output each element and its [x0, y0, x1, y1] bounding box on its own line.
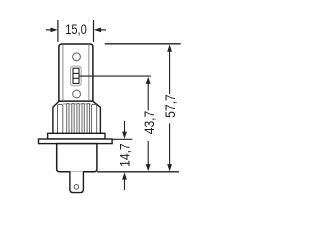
svg-text:14,7: 14,7	[116, 143, 132, 167]
dimension 15,0 left arrow	[46, 29, 52, 31]
bottom reference line (base seating plane)	[97, 171, 179, 173]
dimension 14,7 top extension line	[113, 138, 133, 140]
connector tab	[70, 172, 84, 193]
connector tab hole	[74, 185, 79, 190]
spring rib 2	[72, 103, 74, 133]
dimension 43,7 down arrow	[146, 164, 151, 171]
flange lower plate	[39, 139, 113, 144]
top screw circle	[73, 53, 81, 61]
body inner right edge line	[88, 44, 90, 100]
base housing	[57, 144, 97, 172]
dimension 43,7 up arrow	[146, 77, 151, 84]
LED chip cell divider upper	[73, 72, 79, 74]
svg-text:15,0: 15,0	[65, 21, 87, 37]
dimension 43,7 extension line (chip leader)	[79, 75, 151, 77]
spring rib 3	[77, 103, 79, 133]
connector tab top white patch	[71, 171, 83, 172]
svg-text:43,7: 43,7	[141, 111, 157, 135]
dimension 57,7 down arrow	[167, 164, 172, 171]
dimension 15,0 right extension line	[93, 20, 95, 42]
dimension 57,7 line lower segment	[169, 123, 171, 165]
spring rib 4	[82, 103, 84, 133]
spring rib 5	[87, 103, 89, 133]
collar left clamp bump	[58, 105, 63, 134]
LED chip module outer rounded frame	[71, 66, 82, 86]
dimension 15,0 left extension line	[57, 20, 59, 42]
collar right clamp bump	[91, 105, 96, 134]
LED bulb heat-sink body (top rectangular housing)	[59, 44, 93, 101]
dimension 43,7 line lower segment	[147, 141, 149, 165]
dimension 57,7 line upper segment	[169, 51, 171, 95]
bottom screw circle	[73, 90, 81, 98]
dimension 57,7 top extension line	[105, 43, 181, 45]
collar inner plate edge	[63, 103, 91, 105]
svg-text:57,7: 57,7	[162, 94, 178, 118]
dimension 15,0 right arrow	[100, 29, 107, 31]
LED chip inner rectangle	[73, 68, 79, 83]
dimension 57,7 up arrow	[167, 45, 172, 52]
body inner left edge line	[62, 44, 64, 100]
dimension 14,7 up arrow (bottom)	[124, 179, 126, 191]
connector tab hidden top edge	[70, 170, 83, 172]
dimension 14,7 down arrow (top)	[124, 121, 126, 133]
LED chip cell divider lower	[73, 77, 79, 79]
collar mid-section outline (shoulders)	[53, 101, 101, 133]
spring rib 1	[67, 103, 69, 133]
flange upper plate	[48, 133, 105, 139]
dimension 43,7 line upper segment	[147, 83, 149, 111]
